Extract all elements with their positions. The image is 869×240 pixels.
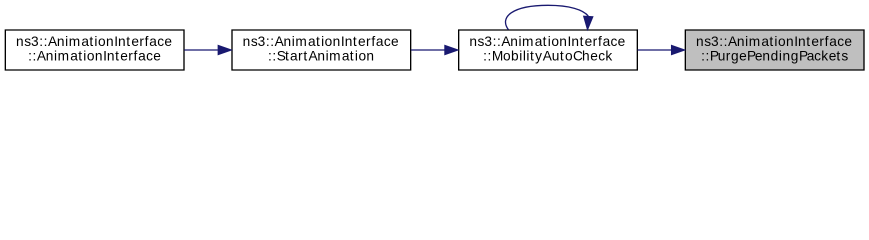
node Node4: ns3::AnimationInterface::AnimationInterface: [5, 30, 184, 70]
svg-text:::PurgePendingPackets: ::PurgePendingPackets: [701, 49, 848, 64]
svg-text:ns3::AnimationInterface: ns3::AnimationInterface: [469, 34, 625, 49]
node Node1: ns3::AnimationInterface::PurgePendingPackets: [685, 30, 864, 70]
edge Node2 -> Node2 self loop: [505, 5, 592, 29]
node Node3: ns3::AnimationInterface::StartAnimation: [232, 30, 411, 70]
svg-text:::MobilityAutoCheck: ::MobilityAutoCheck: [483, 49, 612, 64]
edge Node4 -> Node3 (wire): [184, 45, 231, 54]
node Node2: ns3::AnimationInterface::MobilityAutoCheck: [459, 30, 638, 70]
svg-text:::AnimationInterface: ::AnimationInterface: [28, 49, 161, 64]
svg-text:ns3::AnimationInterface: ns3::AnimationInterface: [16, 34, 172, 49]
edge Node3 -> Node2 (wire): [411, 45, 458, 54]
svg-text:::StartAnimation: ::StartAnimation: [268, 49, 374, 64]
svg-text:ns3::AnimationInterface: ns3::AnimationInterface: [696, 34, 852, 49]
svg-text:ns3::AnimationInterface: ns3::AnimationInterface: [243, 34, 399, 49]
edge Node2 -> Node1 (wire): [638, 45, 685, 54]
